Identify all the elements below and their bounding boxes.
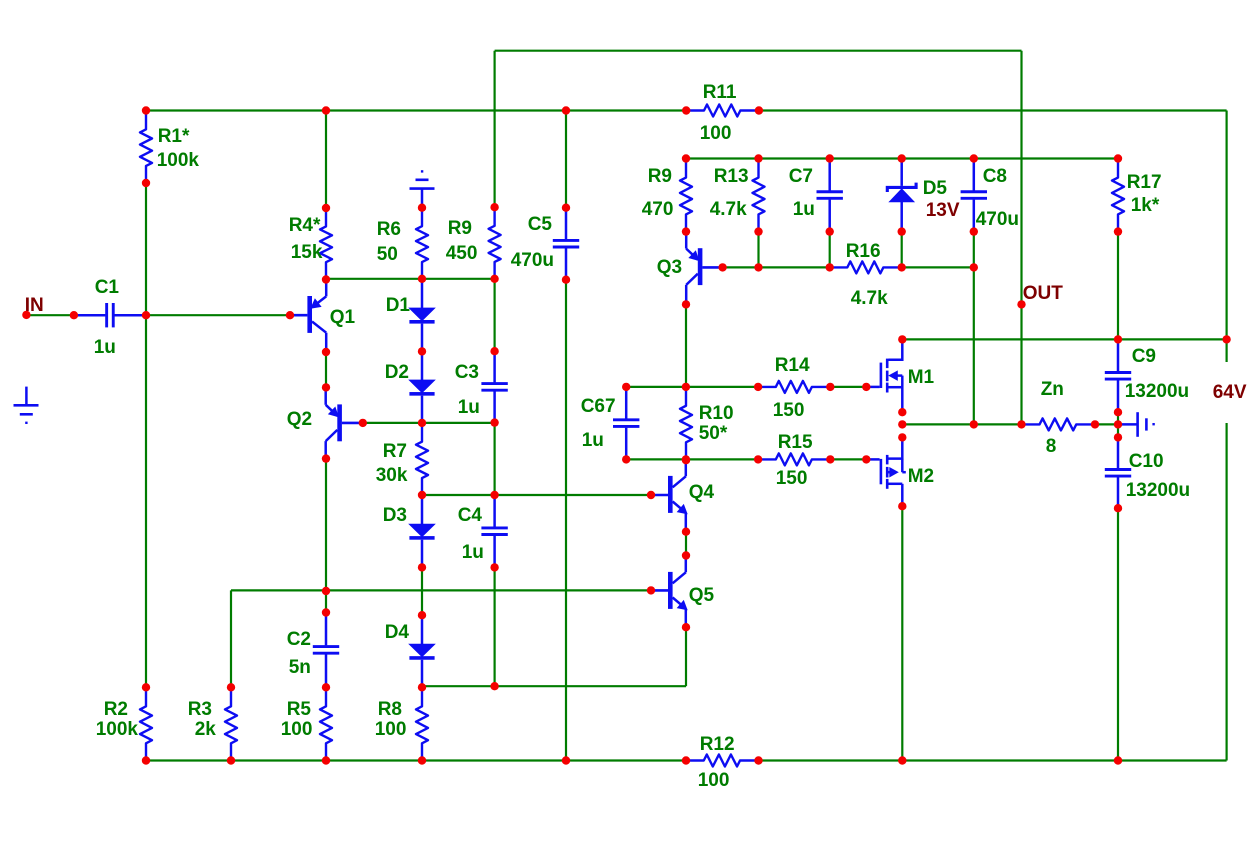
- svg-text:M2: M2: [908, 466, 934, 487]
- svg-text:M1: M1: [908, 367, 935, 388]
- svg-text:5n: 5n: [289, 657, 311, 678]
- svg-text:R3: R3: [188, 699, 212, 720]
- svg-text:R4*: R4*: [289, 215, 321, 236]
- svg-text:Zn: Zn: [1041, 379, 1064, 400]
- svg-text:R13: R13: [714, 166, 749, 187]
- svg-text:150: 150: [776, 468, 808, 489]
- svg-text:C8: C8: [983, 166, 1007, 187]
- svg-text:Q3: Q3: [657, 257, 682, 278]
- svg-text:13200u: 13200u: [1125, 381, 1189, 402]
- svg-text:R14: R14: [775, 355, 810, 376]
- svg-text:100k: 100k: [157, 150, 200, 171]
- svg-text:100: 100: [700, 123, 732, 144]
- svg-text:1u: 1u: [462, 542, 484, 563]
- svg-text:R2: R2: [104, 699, 128, 720]
- svg-text:100: 100: [281, 719, 313, 740]
- svg-text:R9: R9: [448, 218, 472, 239]
- svg-text:100: 100: [698, 770, 730, 791]
- svg-text:R8: R8: [378, 699, 402, 720]
- svg-text:100k: 100k: [96, 719, 139, 740]
- svg-text:Q1: Q1: [330, 307, 356, 328]
- svg-text:4.7k: 4.7k: [710, 199, 747, 220]
- svg-text:50: 50: [377, 244, 398, 265]
- svg-text:Q2: Q2: [287, 409, 312, 430]
- svg-text:C5: C5: [528, 214, 553, 235]
- svg-text:R1*: R1*: [158, 126, 190, 147]
- svg-text:13V: 13V: [926, 200, 960, 221]
- svg-text:13200u: 13200u: [1126, 480, 1190, 501]
- svg-text:OUT: OUT: [1023, 283, 1063, 304]
- svg-text:Q4: Q4: [689, 482, 715, 503]
- svg-text:C10: C10: [1129, 451, 1164, 472]
- svg-text:1u: 1u: [458, 397, 480, 418]
- svg-text:C3: C3: [455, 362, 479, 383]
- svg-text:1k*: 1k*: [1131, 195, 1160, 216]
- svg-text:1u: 1u: [793, 199, 815, 220]
- svg-text:C4: C4: [458, 505, 483, 526]
- svg-text:R7: R7: [383, 441, 407, 462]
- svg-text:R11: R11: [703, 82, 737, 103]
- svg-text:R12: R12: [700, 734, 735, 755]
- svg-text:50*: 50*: [699, 423, 728, 444]
- svg-text:Q5: Q5: [689, 585, 715, 606]
- svg-text:D2: D2: [385, 362, 409, 383]
- svg-text:1u: 1u: [94, 337, 116, 358]
- svg-text:150: 150: [773, 400, 805, 421]
- svg-text:D1: D1: [386, 295, 411, 316]
- svg-text:R5: R5: [287, 699, 312, 720]
- svg-text:1u: 1u: [582, 430, 604, 451]
- svg-text:R10: R10: [699, 403, 734, 424]
- svg-text:470u: 470u: [511, 250, 554, 271]
- svg-text:15k: 15k: [291, 242, 323, 263]
- svg-text:2k: 2k: [195, 719, 217, 740]
- svg-text:D4: D4: [385, 622, 410, 643]
- svg-text:C67: C67: [581, 396, 616, 417]
- svg-text:64V: 64V: [1213, 382, 1247, 403]
- svg-text:30k: 30k: [376, 465, 408, 486]
- svg-text:R16: R16: [846, 241, 881, 262]
- svg-text:R15: R15: [778, 432, 813, 453]
- svg-text:C1: C1: [95, 277, 120, 298]
- svg-text:4.7k: 4.7k: [851, 288, 888, 309]
- svg-text:450: 450: [446, 243, 478, 264]
- svg-text:C9: C9: [1132, 346, 1156, 367]
- svg-text:100: 100: [375, 719, 407, 740]
- svg-text:470u: 470u: [976, 209, 1019, 230]
- svg-text:D5: D5: [923, 178, 948, 199]
- svg-text:C2: C2: [287, 629, 311, 650]
- svg-text:R17: R17: [1127, 172, 1162, 193]
- svg-text:R9: R9: [648, 166, 672, 187]
- svg-text:C7: C7: [789, 166, 813, 187]
- svg-text:470: 470: [642, 199, 674, 220]
- svg-text:D3: D3: [383, 505, 407, 526]
- svg-text:R6: R6: [377, 219, 401, 240]
- svg-text:8: 8: [1046, 436, 1057, 457]
